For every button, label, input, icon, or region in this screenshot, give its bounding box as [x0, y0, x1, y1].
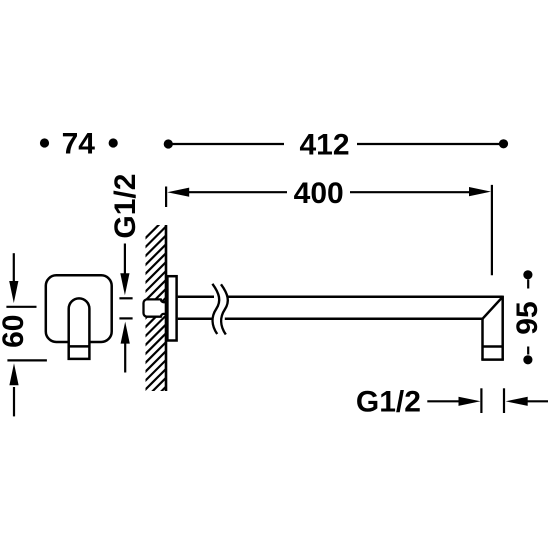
- svg-text:95: 95: [511, 301, 544, 334]
- svg-text:G1/2: G1/2: [109, 174, 142, 239]
- svg-text:400: 400: [294, 177, 344, 210]
- svg-text:74: 74: [62, 127, 96, 160]
- svg-text:G1/2: G1/2: [356, 386, 421, 419]
- svg-text:60: 60: [0, 315, 30, 348]
- svg-text:412: 412: [299, 129, 349, 162]
